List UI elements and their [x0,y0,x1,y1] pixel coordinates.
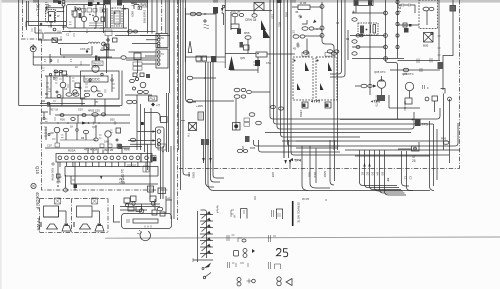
svg-text:4 BB: 4 BB [119,181,125,185]
svg-text:Q05: Q05 [240,56,245,60]
svg-text:R9: R9 [81,137,85,140]
svg-text:1W2: 1W2 [104,141,110,144]
svg-text:Q05 KTC: Q05 KTC [374,70,386,74]
svg-text:Q07: Q07 [92,126,97,129]
svg-text:40KON F: 40KON F [35,192,40,210]
svg-text:R9: R9 [346,38,350,41]
svg-text:B05: B05 [423,44,429,48]
svg-text:TAN DC: TAN DC [93,62,103,66]
svg-text:H05: H05 [271,172,275,178]
svg-text:W 05: W 05 [302,197,309,201]
svg-text:R05: R05 [250,146,256,150]
svg-text:R05 4TPW: R05 4TPW [51,168,55,181]
svg-text:IC DC/DC: IC DC/DC [85,78,101,82]
svg-text:B1: B1 [361,172,365,176]
svg-text:25: 25 [57,179,61,183]
svg-text:R88: R88 [124,148,130,152]
svg-text:45: 45 [295,10,299,14]
svg-text:P4: P4 [161,52,165,56]
svg-text:F: F [427,86,429,90]
svg-text:FB01: FB01 [299,110,303,118]
svg-text:4R05 C05: 4R05 C05 [88,109,100,113]
svg-text:GND: GND [192,172,196,178]
svg-text:R05: R05 [278,22,281,27]
svg-text:R05: R05 [60,118,65,122]
svg-text:W: W [233,215,237,218]
svg-text:TP3: TP3 [422,123,428,127]
svg-text:C2: C2 [409,176,413,180]
svg-text:45: 45 [293,47,296,51]
svg-text:TP: TP [386,178,390,182]
svg-text:SERVICE NOTE: SERVICE NOTE [297,202,301,223]
svg-text:C05: C05 [46,4,51,8]
svg-text:R05: R05 [53,77,58,80]
svg-text:P3: P3 [161,36,165,40]
svg-text:GND: GND [323,171,327,177]
svg-text:R05: R05 [441,137,447,141]
svg-text:C09: C09 [78,109,83,112]
svg-text:C1: C1 [404,176,408,180]
svg-text:1W05 R05: 1W05 R05 [143,10,147,24]
svg-text:II: II [325,198,327,202]
svg-text:R1: R1 [39,30,43,33]
svg-text:3KL: 3KL [36,4,41,12]
svg-text:R05A: R05A [68,149,76,153]
svg-text:C3: C3 [336,22,340,25]
svg-text:BG: BG [97,90,101,93]
svg-text:T01: T01 [48,25,53,29]
svg-text:B3: B3 [371,172,375,176]
svg-text:BR54: BR54 [84,90,91,93]
svg-text:CXX+05: CXX+05 [80,47,90,51]
svg-text:C07: C07 [47,144,52,148]
svg-text:4x4x4: 4x4x4 [216,205,220,213]
svg-text:R05 1W: R05 1W [231,10,241,14]
svg-text:390 05: 390 05 [104,148,114,152]
svg-text:472 4R08: 472 4R08 [84,148,97,152]
svg-text:05: 05 [95,101,98,104]
svg-text:PPWR: PPWR [36,218,41,231]
svg-text:C07: C07 [292,30,295,35]
svg-text:TP4: TP4 [294,159,302,163]
svg-text:VCC: VCC [313,172,317,178]
svg-text:V05: V05 [308,172,312,177]
svg-text:KTC4370: KTC4370 [375,96,379,108]
svg-text:B05: B05 [187,172,191,177]
svg-text:1W2: 1W2 [285,12,288,18]
svg-text:BR: BR [45,93,49,96]
svg-text:Q15: Q15 [35,166,40,175]
svg-text:W: W [57,14,60,18]
svg-text:R 05: R 05 [300,1,307,5]
svg-text:D05: D05 [110,119,115,122]
svg-text:W05: W05 [131,11,135,17]
svg-text:B2: B2 [366,172,370,176]
svg-text:2W: 2W [50,132,54,135]
svg-text:KTC433: KTC433 [403,101,407,111]
svg-text:C4: C4 [64,88,68,91]
svg-text:C05: C05 [271,14,274,19]
svg-text:TH: TH [187,133,191,137]
svg-text:PL3: PL3 [150,97,156,101]
svg-text:4R: 4R [42,100,45,103]
svg-text:+T: +T [156,104,160,108]
svg-text:47: 47 [167,197,171,201]
svg-text:CRH 34: CRH 34 [245,18,257,22]
svg-text:1K: 1K [75,66,78,69]
svg-text:Q06 KTC: Q06 KTC [402,72,414,76]
svg-text:W5: W5 [142,3,147,7]
svg-text:B5: B5 [381,172,385,176]
svg-text:B4: B4 [376,172,380,176]
svg-text:25: 25 [412,159,416,163]
svg-text:1K: 1K [70,125,73,129]
svg-text:R55: R55 [244,31,250,35]
svg-text:R07 1K: R07 1K [50,109,59,112]
svg-text:C2: C2 [66,34,70,37]
svg-text:+205: +205 [196,104,203,108]
